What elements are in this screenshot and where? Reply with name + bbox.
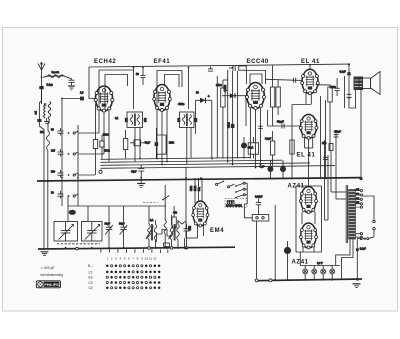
variable capacitor CV1 — [59, 222, 74, 241]
variable capacitor CV1 frame — [54, 222, 78, 242]
svg-text:C3: C3 — [89, 281, 93, 285]
capacitor C6 — [58, 191, 64, 199]
transformer T1 primary coil — [130, 115, 132, 125]
svg-text:EL 41: EL 41 — [301, 59, 320, 65]
wire: ECC40 anode loop inner — [250, 74, 262, 84]
tube U8 AZ41 rectifier lower — [299, 223, 317, 249]
svg-text:ing.ant.: ing.ant. — [52, 71, 60, 74]
svg-text:455kc: 455kc — [178, 103, 185, 106]
capacitor C8 T1 left pad — [125, 118, 128, 122]
coil L5 oscillator — [154, 220, 157, 248]
capacitor C14 paper box — [248, 137, 258, 159]
svg-text:6,3 V: 6,3 V — [317, 262, 323, 265]
coil L1 built-in antenna squiggle — [48, 75, 64, 78]
capacitor C17 — [334, 135, 339, 137]
resistor R20 wavy — [164, 185, 166, 248]
logo PHILIPS — [36, 281, 60, 288]
wire: grid feed vertical — [61, 98, 63, 207]
svg-text:0,01µF: 0,01µF — [255, 196, 263, 199]
svg-text:25kΩ: 25kΩ — [216, 84, 222, 87]
wire: right vert 2 — [325, 100, 327, 178]
transformer T2 primary coil — [183, 115, 185, 125]
wire: EL41a pin leads — [306, 85, 318, 105]
transformer T2 IF2 box — [180, 112, 195, 128]
capacitor C10 T2 left pad — [177, 118, 180, 122]
wire: right vert 3 — [335, 130, 337, 178]
svg-text:4 µF: 4 µF — [259, 166, 264, 169]
wire: tuning ground bus — [38, 247, 235, 249]
core L6/L7 — [174, 224, 175, 241]
svg-text:3,4µµ: 3,4µµ — [47, 84, 54, 87]
svg-text:met afstemming: met afstemming — [40, 273, 63, 277]
svg-text:30pF: 30pF — [119, 223, 125, 226]
ground G2 chassis bottom — [353, 284, 361, 288]
wire: R13 bypass loop — [156, 135, 166, 154]
transformer T4 terminals — [356, 189, 363, 238]
wire: EM4 feeds — [186, 167, 202, 238]
wire: ECH42 anode loop outer — [99, 70, 134, 111]
wire: coupling to EL41 grid — [266, 79, 302, 80]
wire: R1 down to tuning bus — [47, 150, 49, 249]
wire: AVC/B+ band line 1 — [101, 158, 251, 160]
variable capacitor CV2 frame — [82, 222, 103, 242]
switch contact S4 — [162, 196, 169, 201]
svg-text:220: 220 — [356, 193, 359, 195]
capacitor C27 47uF on bus — [138, 165, 144, 178]
wire: EF41 pin leads — [157, 110, 167, 165]
svg-text:200: 200 — [356, 198, 359, 200]
svg-text:245: 245 — [356, 189, 359, 191]
lamp LA4 — [330, 266, 335, 280]
antenna — [38, 62, 45, 104]
node open circles on tuning bus — [76, 247, 188, 250]
capacitor C28 4uF blob — [267, 160, 273, 178]
ground T under L2 — [44, 118, 49, 124]
coil L9 small squiggle — [178, 222, 187, 224]
capacitor C34 blob on antenna lead — [37, 119, 41, 122]
svg-text:ant: ant — [35, 111, 38, 115]
capacitor C21 filter blob — [284, 241, 291, 280]
coil L3 antenna secondary — [48, 102, 51, 120]
capacitor C22 tone — [256, 199, 261, 215]
wire: vert feed 2 — [227, 70, 229, 162]
wire: EF41 screen loop outer — [157, 71, 182, 111]
svg-text:47µF: 47µF — [131, 171, 137, 174]
wire: heater route 2 — [342, 239, 354, 280]
svg-text:PHILIPS: PHILIPS — [44, 283, 59, 287]
switch S3 gramo-radio — [235, 182, 247, 204]
svg-text:B↔: B↔ — [88, 264, 93, 268]
resistor R2 vertical box — [221, 80, 228, 159]
wire: dash link switch shaft — [143, 202, 158, 204]
tube U3 ECC40 — [245, 83, 265, 110]
svg-text:1MΩ: 1MΩ — [169, 142, 174, 145]
capacitor C15 coupling — [294, 78, 296, 83]
wire: EM4 to ground bus — [184, 238, 186, 248]
svg-text:125: 125 — [356, 202, 359, 204]
svg-text:C4: C4 — [89, 286, 93, 290]
capacitor C26 — [184, 224, 190, 248]
tube U1 ECH42 — [94, 86, 114, 112]
wire: long vert x217 — [216, 76, 218, 159]
capacitor C19 — [347, 94, 352, 98]
wire: transformer to AZ41 — [331, 160, 346, 199]
ground G3 below bus — [137, 179, 145, 188]
wire: right vert 1 — [320, 96, 322, 178]
resistor R18 box — [290, 140, 294, 154]
resistor R4 on rail — [239, 66, 247, 70]
svg-text:125: 125 — [51, 150, 56, 153]
lamp LA1 — [303, 266, 308, 280]
capacitor C23 box can — [252, 215, 269, 222]
svg-text:AZ41: AZ41 — [288, 184, 305, 190]
wire: AVC/B+ band line 2 — [101, 160, 283, 162]
svg-text:ECH42: ECH42 — [94, 59, 116, 65]
wire: rail drop to T1 — [133, 67, 135, 71]
switch contact S1a — [68, 131, 78, 134]
wire: AZ41 tube links — [300, 212, 315, 266]
wire: EL41b pin leads — [305, 137, 313, 178]
variable capacitor CV2 — [85, 222, 100, 241]
wire: antenna lead jog — [39, 89, 41, 119]
wire: padder staircase loop — [157, 230, 172, 243]
svg-text:AZ41: AZ41 — [292, 260, 309, 266]
ground G1 — [68, 86, 75, 90]
wire: vert to bottom bus — [274, 205, 276, 280]
capacitor C31 coupling to EL41b — [282, 124, 284, 129]
wire: AVC/B+ band line 3 — [101, 163, 311, 165]
resistor R12 box — [130, 140, 144, 146]
wire: rail drop to EL41a — [309, 65, 311, 70]
transformer T4 winding block — [349, 190, 356, 240]
wire: EF41 screen loop inner — [165, 75, 180, 88]
wire: band switch stem — [77, 125, 79, 206]
label pickup gramo — [226, 201, 243, 207]
ground hatch ticks on tuning bus — [101, 249, 168, 253]
svg-text:E3: E3 — [89, 276, 93, 280]
tube U2 EF41 — [153, 85, 172, 112]
wire: C23 feed — [244, 204, 258, 282]
coil L2 antenna primary — [44, 105, 45, 119]
wire: detector drop — [211, 100, 213, 158]
resistor R1 wavy — [47, 131, 50, 150]
wire: switch row 2 — [78, 153, 104, 155]
svg-text:470pF: 470pF — [334, 131, 341, 134]
node terminal above bus — [99, 170, 102, 173]
resistor R15 box — [270, 66, 274, 127]
capacitor C33 — [323, 157, 328, 159]
wire: heater route left — [336, 239, 350, 266]
wire: bottom heater bus — [255, 279, 362, 281]
transformer T1 core — [133, 114, 136, 127]
capacitor C18 0.1uF — [347, 72, 350, 75]
svg-text:47kΩ: 47kΩ — [248, 147, 254, 150]
ground G4 under tuning bus — [41, 252, 49, 256]
svg-text:470Ω: 470Ω — [104, 150, 110, 153]
capacitor C-ant 220pF — [39, 76, 43, 104]
capacitor C4 — [58, 149, 64, 157]
tube U5 EL41 output 2 — [299, 114, 318, 139]
capacitor C20 0.1uF mains — [356, 248, 359, 280]
wire: rail drop to ECH42 — [89, 67, 95, 99]
wire: oscillator link row — [68, 196, 166, 222]
resistor R11 box — [123, 130, 127, 159]
wire: switch row 3 — [78, 174, 95, 176]
wire: vert feed 3 — [237, 71, 239, 159]
core lines L2 — [44, 103, 45, 106]
svg-text:C1: C1 — [89, 270, 93, 274]
svg-text:150Ω: 150Ω — [330, 86, 336, 89]
svg-text:↕↕ 500 µF: ↕↕ 500 µF — [40, 266, 54, 270]
wire: R14 down — [195, 122, 197, 134]
transformer T2 secondary coil — [189, 115, 191, 125]
wire: ECC40 pin leads — [251, 108, 261, 168]
svg-text:ECC40: ECC40 — [247, 59, 269, 65]
capacitor C13 electrolytic blob — [241, 137, 247, 159]
svg-text:EL 41: EL 41 — [297, 153, 316, 159]
svg-text:50µF: 50µF — [145, 142, 151, 145]
core L4/L5 — [152, 224, 153, 241]
coil L8 can — [69, 210, 76, 215]
resistor R14 dark — [194, 118, 197, 122]
label 1M rotated pair — [190, 186, 201, 191]
transformer T2 core — [185, 114, 188, 127]
table: row labels — [88, 264, 93, 290]
wire: main chassis bus — [37, 178, 361, 181]
wire: top right corner drop — [349, 64, 356, 108]
resistor R13 dark box — [155, 128, 159, 159]
resistor R10 box — [100, 135, 104, 159]
wire: ECH42 pin leads — [96, 104, 110, 162]
svg-text:100: 100 — [40, 131, 45, 134]
diode D2 — [222, 93, 246, 126]
switch contact S1b — [68, 152, 78, 155]
diode D1 detector — [196, 98, 212, 118]
lamp LA3 — [321, 266, 326, 280]
svg-text:0,1µF: 0,1µF — [340, 71, 347, 74]
label values sprinkle — [40, 71, 366, 251]
wire: EL41b grid lead — [268, 110, 301, 126]
wire: top B+ rail — [89, 64, 349, 67]
wire: T2 links — [187, 128, 191, 165]
resistor R5 cathode box — [318, 85, 332, 150]
capacitor C7 on rail — [141, 66, 146, 85]
capacitor C32 on rail — [208, 66, 213, 71]
wire: EM4 pin leads — [198, 224, 204, 239]
svg-text:20kΩ: 20kΩ — [103, 134, 109, 137]
wire: ECH42 anode loop inner — [105, 75, 128, 113]
resistor R19 box — [172, 206, 176, 228]
wire: ECC40 anode loop outer — [247, 71, 266, 85]
table: switch position dots — [106, 265, 160, 290]
svg-text:0,1µF: 0,1µF — [360, 248, 367, 251]
wire: left column down from antenna coil — [39, 122, 44, 249]
coil L6 oscillator 2 — [169, 215, 177, 248]
resistor R17 box — [270, 131, 274, 166]
wire: heater loop right of AZ41 — [325, 140, 329, 220]
capacitor C24 trimmer — [105, 222, 113, 248]
switch contact S1d — [68, 194, 78, 197]
lamp LA2 — [312, 266, 317, 280]
svg-text:EF41: EF41 — [154, 59, 171, 65]
svg-text:RADIO•GRAM.: RADIO•GRAM. — [226, 205, 243, 208]
svg-text:10: 10 — [145, 257, 149, 261]
capacitor C12 on rail — [229, 65, 235, 71]
capacitor C16 — [335, 78, 340, 96]
svg-text:12: 12 — [153, 257, 157, 261]
resistor R16 box — [276, 80, 280, 115]
svg-text:50µµF: 50µµF — [277, 121, 284, 124]
resistor R7 EM4 grid — [188, 226, 191, 231]
capacitor C30 on ECC40 pin — [258, 126, 263, 128]
tube U7 AZ41 rectifier upper — [299, 187, 317, 214]
tube U6 EM4 magic eye — [192, 201, 209, 227]
wire: lamp feed — [300, 265, 340, 267]
wire: ECH42 grid lead — [62, 98, 80, 100]
svg-text:500: 500 — [51, 171, 56, 174]
wire: AZ41 enclosure box — [296, 186, 322, 252]
svg-text:11: 11 — [149, 257, 152, 261]
wire: rail drop to T2 — [188, 68, 190, 110]
wire: AVC/B+ band line 4 — [101, 166, 336, 169]
speaker LS1 — [359, 72, 380, 178]
node main bus right end — [359, 177, 362, 180]
switch contact S1c — [68, 173, 78, 176]
wire: gramo dashed outline — [225, 199, 247, 208]
mains plug P1 — [363, 196, 376, 238]
wire: parallel feed — [344, 76, 346, 108]
wire: AZ41 anode feed — [308, 177, 310, 187]
switch S2 mains — [357, 238, 368, 249]
resistor R9 box — [93, 140, 97, 176]
resistor R8 small — [164, 243, 170, 246]
transformer T3 output dark block — [354, 77, 364, 109]
resistor R3 vertical box — [231, 71, 235, 164]
transformer T4 winding stripes — [349, 192, 356, 237]
tube U4 EL41 output 1 — [301, 69, 320, 94]
svg-text:30pF: 30pF — [105, 223, 111, 226]
capacitor C29 blob — [280, 160, 286, 178]
switch S5 contacts — [216, 181, 235, 188]
svg-text:0,1µF: 0,1µF — [265, 138, 272, 141]
wire: antenna branch — [43, 76, 72, 80]
svg-text:1MΩ: 1MΩ — [194, 186, 197, 191]
transformer T4 core lines — [346, 185, 347, 243]
capacitor C5 — [58, 170, 64, 178]
capacitor C25 trimmer — [120, 222, 128, 248]
coil L4 oscillator — [146, 206, 154, 248]
svg-text:EM4: EM4 — [210, 228, 224, 234]
wire: secondary coil to grid column — [48, 120, 50, 132]
wire: gang mechanical dash link — [57, 243, 100, 245]
label voltage taps — [356, 189, 359, 204]
svg-text:1MΩ: 1MΩ — [190, 186, 193, 191]
node grid cap ECH42 — [80, 97, 84, 101]
svg-text:1kΩ: 1kΩ — [322, 142, 327, 145]
transformer T1 IF1 box — [127, 112, 143, 128]
node bottom bus left terminal — [269, 279, 272, 282]
capacitor C2 — [69, 80, 75, 86]
resistor R6 small box — [329, 144, 333, 161]
transformer T1 secondary coil — [137, 115, 139, 125]
coil L7 oscillator 2 — [177, 220, 180, 248]
wire: EL41a cathode net — [292, 105, 311, 179]
wire: switch row 1 — [78, 132, 99, 134]
capacitor C3 padder — [58, 128, 64, 136]
capacitor C9 T1 right pad — [144, 118, 147, 122]
wire: T1 links — [135, 128, 140, 162]
